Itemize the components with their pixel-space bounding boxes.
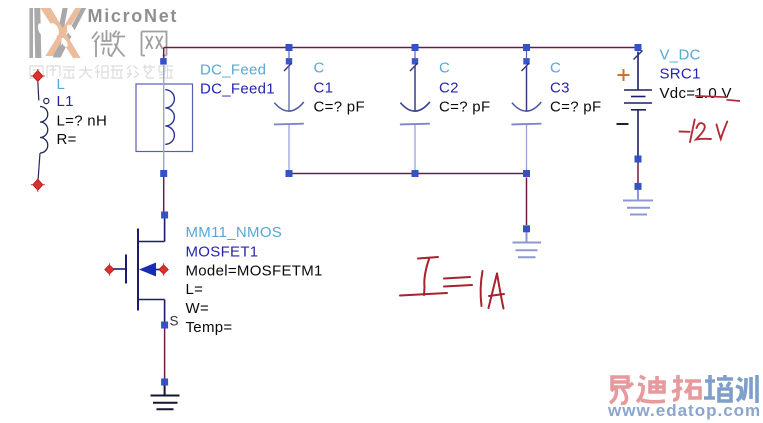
svg-text:C1: C1 bbox=[314, 80, 334, 97]
svg-text:MM11_NMOS: MM11_NMOS bbox=[186, 224, 283, 241]
svg-text:R=: R= bbox=[57, 131, 77, 148]
svg-text:Model=MOSFETM1: Model=MOSFETM1 bbox=[186, 263, 323, 280]
svg-text:MicroNet: MicroNet bbox=[88, 6, 179, 26]
svg-text:DC_Feed: DC_Feed bbox=[200, 62, 266, 79]
svg-text:L=? nH: L=? nH bbox=[57, 113, 108, 130]
svg-text:C2: C2 bbox=[439, 80, 459, 97]
svg-text:www.edatop.com: www.edatop.com bbox=[607, 401, 761, 420]
svg-text:C: C bbox=[550, 59, 561, 76]
svg-text:C=? pF: C=? pF bbox=[439, 99, 490, 116]
svg-text:L1: L1 bbox=[57, 93, 74, 110]
svg-text:Temp=: Temp= bbox=[186, 319, 233, 336]
svg-text:C=? pF: C=? pF bbox=[550, 99, 601, 116]
svg-text:DC_Feed1: DC_Feed1 bbox=[200, 81, 275, 98]
svg-text:V_DC: V_DC bbox=[660, 46, 701, 63]
svg-text:C=? pF: C=? pF bbox=[314, 99, 365, 116]
svg-text:S: S bbox=[170, 314, 179, 329]
svg-text:SRC1: SRC1 bbox=[660, 65, 701, 82]
svg-text:L=: L= bbox=[186, 281, 204, 298]
svg-text:L: L bbox=[57, 76, 66, 93]
svg-text:C: C bbox=[314, 59, 325, 76]
svg-text:W=: W= bbox=[186, 300, 210, 317]
svg-text:MOSFET1: MOSFET1 bbox=[186, 244, 259, 261]
svg-text:C3: C3 bbox=[550, 80, 570, 97]
svg-text:C: C bbox=[439, 59, 450, 76]
svg-text:Vdc=1.0 V: Vdc=1.0 V bbox=[660, 85, 732, 102]
